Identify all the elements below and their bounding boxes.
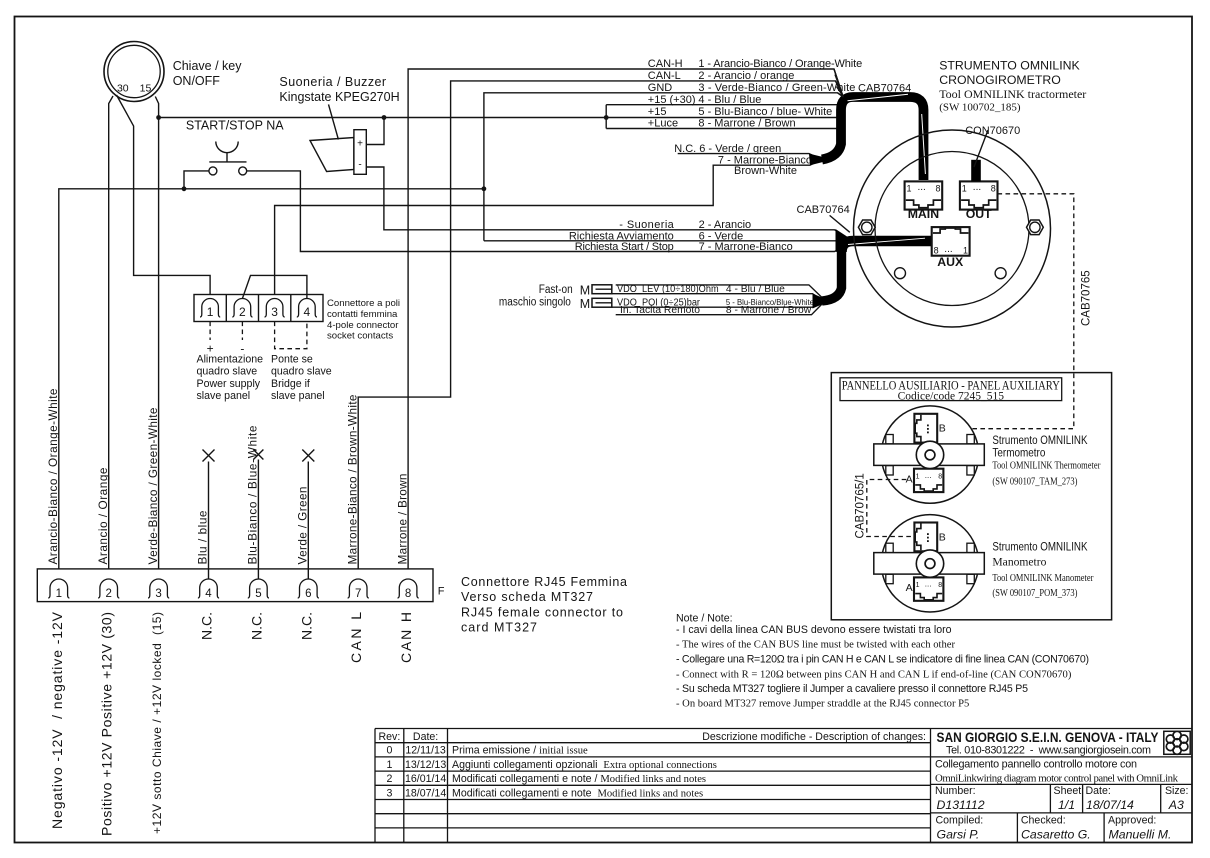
dashed stub 4-pole pin 2 bbox=[241, 322, 243, 341]
svg-text:- I cavi della linea CAN BUS d: - I cavi della linea CAN BUS devono esse… bbox=[676, 624, 952, 636]
svg-text:...: ... bbox=[973, 182, 981, 193]
svg-text:A3: A3 bbox=[1168, 798, 1184, 812]
svg-text:maschio singolo: maschio singolo bbox=[499, 297, 571, 309]
RJ45 pin 6 bbox=[298, 579, 319, 600]
wire buzzer - to Suoneria row bbox=[366, 167, 844, 236]
svg-text:M: M bbox=[580, 297, 590, 311]
svg-text:5: 5 bbox=[255, 588, 261, 600]
svg-text:Manometro: Manometro bbox=[992, 557, 1046, 569]
instrument OMNILINK thermometer bbox=[874, 406, 985, 503]
fast-on lug M2 bbox=[592, 298, 612, 307]
svg-text:Blu / blue: Blu / blue bbox=[196, 510, 210, 564]
wire N.C. RJ45 pin 4 stub bbox=[208, 462, 210, 580]
svg-text:Garsi P.: Garsi P. bbox=[937, 828, 980, 842]
connector AUX bbox=[932, 227, 970, 269]
4-pole pin 4 bbox=[297, 299, 317, 320]
svg-text:Descrizione modifiche - Descri: Descrizione modifiche - Description of c… bbox=[702, 731, 926, 743]
svg-text:VDO_LEV (10÷180)Ohm: VDO_LEV (10÷180)Ohm bbox=[617, 284, 719, 295]
svg-text:ON/OFF: ON/OFF bbox=[173, 74, 221, 88]
svg-text:1: 1 bbox=[56, 588, 62, 600]
net labels AUX rows bbox=[569, 219, 675, 253]
svg-text:Ponte se: Ponte se bbox=[271, 353, 313, 365]
svg-text:2 - Arancio / orange: 2 - Arancio / orange bbox=[698, 70, 794, 82]
svg-text:Verde-Bianco / Green-White: Verde-Bianco / Green-White bbox=[146, 407, 160, 564]
svg-text:SAN GIORGIO S.E.I.N. GENOVA -: SAN GIORGIO S.E.I.N. GENOVA - ITALY bbox=[937, 730, 1159, 745]
label STRUMENTO OMNILINK CRONOGIROMETRO bbox=[939, 59, 1086, 114]
svg-text:2 - Arancio: 2 - Arancio bbox=[699, 219, 752, 231]
RJ45 pin 4 bbox=[198, 579, 219, 600]
svg-text:16/01/14: 16/01/14 bbox=[405, 773, 446, 785]
4-pole pin 1 bbox=[200, 299, 220, 320]
4-pole pin 2 bbox=[232, 298, 252, 319]
svg-text:Connettore a poli: Connettore a poli bbox=[327, 298, 400, 309]
dashed cable CAB70765 from OUT to auxiliary panel bbox=[945, 194, 1074, 429]
dashed stub 4-pole pin 1 bbox=[209, 322, 211, 341]
svg-text:Negativo -12V / negative -12V: Negativo -12V / negative -12V bbox=[49, 611, 65, 829]
svg-text:Marrone-Bianco / Brown-White: Marrone-Bianco / Brown-White bbox=[345, 394, 359, 564]
svg-text:CAN L: CAN L bbox=[348, 612, 364, 663]
svg-text:3: 3 bbox=[271, 305, 278, 319]
wire button left contact to ground wire bbox=[184, 171, 209, 189]
svg-text:A: A bbox=[906, 473, 913, 485]
svg-text:Blu-Bianco / Blue-White: Blu-Bianco / Blue-White bbox=[246, 425, 260, 564]
terminator plug CON70670 bbox=[971, 160, 981, 182]
svg-text:...: ... bbox=[925, 580, 932, 589]
svg-text:Tel. 010-8301222 - www.sangi: Tel. 010-8301222 - www.sangiorgiosein.co… bbox=[946, 745, 1151, 757]
revision row 0 bbox=[386, 745, 588, 757]
buzzer horn bbox=[310, 138, 354, 172]
RJ45 pin 1 bbox=[48, 579, 69, 600]
svg-text:8: 8 bbox=[936, 184, 941, 194]
svg-text:Rev:: Rev: bbox=[379, 731, 401, 743]
svg-text:GND: GND bbox=[648, 82, 673, 94]
leader CAB70764 aux bbox=[830, 215, 850, 232]
svg-text:Sheet:: Sheet: bbox=[1054, 785, 1085, 797]
svg-text:...: ... bbox=[918, 182, 926, 193]
svg-text:1: 1 bbox=[207, 305, 214, 319]
svg-text:Collegamento pannello controll: Collegamento pannello controllo motore c… bbox=[935, 759, 1137, 771]
svg-text:CON70670: CON70670 bbox=[965, 125, 1020, 137]
svg-text:quadro slave: quadro slave bbox=[271, 366, 332, 378]
svg-text:3: 3 bbox=[155, 588, 161, 600]
wire N.C. RJ45 pin 5 stub bbox=[257, 460, 259, 580]
cable fan wedge rows 6-7 bbox=[809, 154, 823, 166]
svg-text:Checked:: Checked: bbox=[1021, 815, 1066, 827]
wire Richiesta Avviamento row 6-Verde bbox=[484, 240, 843, 242]
svg-text:Verde / Green: Verde / Green bbox=[296, 487, 310, 565]
fast-on row texts bbox=[617, 284, 814, 316]
svg-text:STRUMENTO OMNILINK: STRUMENTO OMNILINK bbox=[939, 59, 1080, 73]
svg-text:Suoneria / Buzzer: Suoneria / Buzzer bbox=[279, 75, 386, 89]
svg-text:30: 30 bbox=[117, 82, 129, 94]
svg-text:4-pole connector: 4-pole connector bbox=[327, 320, 399, 331]
svg-text:Strumento OMNILINK: Strumento OMNILINK bbox=[992, 539, 1087, 553]
svg-text:Kingstate KPEG270H: Kingstate KPEG270H bbox=[279, 90, 399, 104]
svg-text:B: B bbox=[939, 531, 946, 543]
RJ45 pin 3 bbox=[148, 579, 169, 600]
svg-text:3 - Verde-Bianco / Green-White: 3 - Verde-Bianco / Green-White bbox=[698, 82, 855, 94]
svg-text:CAN H: CAN H bbox=[398, 612, 414, 663]
svg-text:4 - Blu / Blue: 4 - Blu / Blue bbox=[698, 94, 761, 106]
svg-text:- Connect with R = 120Ω betwee: - Connect with R = 120Ω between pins CAN… bbox=[676, 669, 1072, 680]
svg-text:F: F bbox=[438, 586, 445, 598]
net labels instrument MAIN rows bbox=[648, 58, 696, 130]
svg-text:-: - bbox=[358, 160, 361, 171]
svg-text:Date:: Date: bbox=[413, 731, 438, 743]
svg-text:+Luce: +Luce bbox=[648, 118, 678, 130]
svg-text:- On board MT327 remove Jumper: - On board MT327 remove Jumper straddle … bbox=[676, 698, 969, 709]
svg-text:START/STOP NA: START/STOP NA bbox=[186, 119, 284, 133]
svg-text:18/07/14: 18/07/14 bbox=[405, 787, 446, 799]
svg-text:slave panel: slave panel bbox=[271, 390, 325, 402]
push button START/STOP NA bbox=[209, 142, 247, 175]
wire +15 feed from key to instrument +15 row bbox=[159, 117, 607, 119]
title block grid bbox=[375, 729, 1192, 843]
svg-text:A: A bbox=[906, 582, 913, 594]
svg-text:- The wires of the CAN BUS lin: - The wires of the CAN BUS line must be … bbox=[676, 640, 955, 651]
svg-text:N.C.: N.C. bbox=[199, 612, 215, 640]
wire 7 Marrone-Bianco from 4-pole pin 3 bbox=[275, 160, 821, 299]
svg-text:Fast-on: Fast-on bbox=[539, 284, 573, 296]
svg-text:socket contacts: socket contacts bbox=[327, 331, 393, 342]
svg-text:...: ... bbox=[925, 471, 932, 480]
svg-text:CAB70764: CAB70764 bbox=[797, 204, 850, 216]
svg-text:Richiesta Start / Stop: Richiesta Start / Stop bbox=[575, 241, 674, 253]
svg-text:8 - Marrone / Brow: 8 - Marrone / Brow bbox=[726, 305, 812, 316]
svg-text:N.C. 6 - Verde / green: N.C. 6 - Verde / green bbox=[674, 143, 781, 155]
svg-text:CAB70764: CAB70764 bbox=[858, 82, 911, 94]
fast-on lug M1 bbox=[592, 285, 612, 294]
svg-text:Number:: Number: bbox=[935, 785, 976, 797]
svg-text:CAN-H: CAN-H bbox=[648, 58, 683, 70]
svg-text:Arancio-Bianco / Orange-White: Arancio-Bianco / Orange-White bbox=[46, 388, 60, 564]
svg-text:Chiave / key: Chiave / key bbox=[173, 59, 243, 73]
svg-text:- Collegare una R=120Ω tra i p: - Collegare una R=120Ω tra i pin CAN H e… bbox=[676, 653, 1089, 665]
svg-text:+12V sotto Chiave / +12V locke: +12V sotto Chiave / +12V locked (15) bbox=[150, 612, 164, 834]
leader CON70670 bbox=[974, 130, 988, 167]
svg-text:1: 1 bbox=[916, 582, 920, 589]
RJ45 pin 2 bbox=[98, 579, 119, 600]
instrument cronogirometro bezel bbox=[854, 130, 1051, 327]
svg-text:+: + bbox=[357, 139, 363, 150]
svg-text:Note / Note:: Note / Note: bbox=[676, 613, 733, 625]
svg-text:1: 1 bbox=[907, 184, 912, 194]
panel title box bbox=[840, 378, 1062, 401]
cable fan rows 1-3 bbox=[834, 69, 844, 97]
svg-text:0: 0 bbox=[386, 745, 392, 757]
svg-text:Casaretto G.: Casaretto G. bbox=[1021, 828, 1091, 842]
pin labels AUX rows bbox=[699, 219, 793, 253]
svg-text:AUX: AUX bbox=[937, 255, 964, 269]
wire +15 (+30) row 4 bbox=[606, 104, 837, 106]
svg-text:2: 2 bbox=[386, 773, 392, 785]
mounting hole right bbox=[995, 268, 1006, 279]
labels manometer bbox=[992, 539, 1093, 599]
svg-text:M: M bbox=[580, 284, 590, 298]
svg-text:N.C.: N.C. bbox=[248, 612, 264, 640]
svg-text:CAN-L: CAN-L bbox=[648, 70, 681, 82]
svg-text:Power supply: Power supply bbox=[197, 378, 261, 390]
svg-text:...: ... bbox=[944, 244, 952, 255]
svg-text:MAIN: MAIN bbox=[908, 207, 940, 221]
svg-text:7 - Marrone-Bianco: 7 - Marrone-Bianco bbox=[699, 241, 793, 253]
svg-text:5 - Blu-Bianco / blue- White: 5 - Blu-Bianco / blue- White bbox=[698, 106, 832, 118]
svg-text:+15 (+30): +15 (+30) bbox=[648, 94, 696, 106]
svg-text:1: 1 bbox=[916, 474, 920, 481]
wire GND row 3 bbox=[484, 93, 844, 241]
svg-text:OUT: OUT bbox=[966, 207, 992, 221]
4-pole connector box bbox=[194, 295, 323, 322]
wire VDO_LEV row bbox=[612, 294, 820, 299]
label Connettore RJ45 Femmina bbox=[461, 575, 627, 635]
svg-text:Codice/code 7245_515: Codice/code 7245_515 bbox=[898, 390, 1005, 402]
wire +Luce row 8 bbox=[606, 128, 837, 130]
wire CAN-H row 1 from RJ45 pin 8 bbox=[408, 69, 842, 579]
wire +15 row 5 right stub bbox=[606, 117, 837, 119]
svg-text:Size:: Size: bbox=[1165, 785, 1189, 797]
connector OUT bbox=[960, 181, 998, 221]
wire VDO_POI row bbox=[612, 303, 820, 307]
cable seam highlight bbox=[848, 94, 926, 174]
svg-text:D131112: D131112 bbox=[937, 798, 985, 812]
cable CAB70764 bundle to MAIN connector bbox=[822, 97, 924, 180]
buzzer body Kingstate KPEG270H bbox=[354, 130, 366, 175]
svg-text:8: 8 bbox=[991, 184, 996, 194]
svg-text:- Suoneria: - Suoneria bbox=[619, 219, 674, 231]
svg-text:3: 3 bbox=[386, 787, 392, 799]
svg-text:7: 7 bbox=[355, 588, 361, 600]
svg-text:Modificati collegamenti e note: Modificati collegamenti e note / Modifie… bbox=[452, 773, 706, 785]
svg-text:Arancio / Orange: Arancio / Orange bbox=[96, 467, 110, 564]
svg-text:Marrone / Brown: Marrone / Brown bbox=[395, 474, 409, 565]
labels thermometer bbox=[992, 433, 1100, 487]
svg-text:Tool OMNILINK Manometer: Tool OMNILINK Manometer bbox=[992, 572, 1093, 584]
svg-text:Approved:: Approved: bbox=[1108, 815, 1156, 827]
wire N.C. 6 - Verde row bbox=[678, 154, 821, 159]
wire button right contact to Richiesta Start/Stop row bbox=[247, 171, 844, 252]
svg-text:4: 4 bbox=[304, 305, 311, 319]
svg-text:Manuelli M.: Manuelli M. bbox=[1109, 828, 1172, 842]
label Alimentazione quadro slave bbox=[197, 353, 264, 402]
svg-text:CAB70765: CAB70765 bbox=[1081, 270, 1093, 326]
company logo bbox=[1164, 731, 1190, 754]
RJ45 female connector F box bbox=[37, 569, 433, 602]
RJ45 pin 7 bbox=[348, 579, 369, 600]
svg-text:(SW 090107_POM_373): (SW 090107_POM_373) bbox=[992, 588, 1077, 599]
svg-text:1: 1 bbox=[386, 759, 392, 771]
revision row 2 bbox=[386, 773, 706, 785]
svg-text:Brown-White: Brown-White bbox=[734, 165, 797, 177]
svg-text:Date:: Date: bbox=[1086, 785, 1111, 797]
svg-text:Positivo +12V Positive +12V (3: Positivo +12V Positive +12V (30) bbox=[99, 612, 115, 836]
svg-text:15: 15 bbox=[140, 82, 152, 94]
svg-text:Bridge if: Bridge if bbox=[271, 378, 310, 390]
junction key 15 bbox=[156, 115, 161, 120]
svg-text:Verso scheda MT327: Verso scheda MT327 bbox=[461, 590, 593, 604]
svg-text:Connettore RJ45 Femmina: Connettore RJ45 Femmina bbox=[461, 575, 627, 589]
svg-text:1: 1 bbox=[962, 184, 967, 194]
fast-on bundle outline top bbox=[616, 285, 823, 298]
svg-text:+15: +15 bbox=[648, 106, 667, 118]
revision row 3 bbox=[386, 787, 703, 799]
instrument OMNILINK manometer bbox=[874, 515, 985, 612]
svg-text:In. Tacita Remoto: In. Tacita Remoto bbox=[620, 305, 701, 316]
svg-text:1/1: 1/1 bbox=[1058, 798, 1075, 812]
svg-text:quadro slave: quadro slave bbox=[197, 366, 258, 378]
svg-text:Aggiunti collegamenti opzional: Aggiunti collegamenti opzionali Extra op… bbox=[452, 759, 717, 771]
dashed bridge 4-pole pins 3-4 bbox=[275, 322, 307, 349]
svg-text:8: 8 bbox=[938, 474, 942, 481]
junction button ground bbox=[182, 186, 187, 191]
svg-text:OmniLinkwiring diagram motor c: OmniLinkwiring diagram motor control pan… bbox=[935, 773, 1179, 785]
svg-text:slave panel: slave panel bbox=[197, 390, 251, 402]
svg-text:CRONOGIROMETRO: CRONOGIROMETRO bbox=[939, 73, 1061, 87]
svg-text:Prima emissione / initial issu: Prima emissione / initial issue bbox=[452, 745, 588, 757]
cable fan wedge fast-on bbox=[813, 294, 825, 309]
svg-text:1 - Arancio-Bianco / Orange-Wh: 1 - Arancio-Bianco / Orange-White bbox=[698, 58, 862, 70]
ground wire from RJ45 pin 1 bbox=[59, 189, 484, 579]
svg-text:2: 2 bbox=[239, 305, 246, 319]
svg-text:contatti femmina: contatti femmina bbox=[327, 309, 398, 320]
svg-text:RJ45 female connector to: RJ45 female connector to bbox=[461, 605, 623, 619]
mounting nut left bbox=[858, 220, 875, 235]
cable seam highlight AUX bbox=[848, 238, 925, 244]
svg-text:4: 4 bbox=[205, 588, 212, 600]
svg-text:CAB70765/1: CAB70765/1 bbox=[855, 473, 867, 538]
svg-text:Tool OMNILINK Thermometer: Tool OMNILINK Thermometer bbox=[992, 459, 1100, 471]
label Ponte se quadro slave bbox=[271, 353, 332, 402]
wire 4-pole pin 2 to pin 4 bbox=[242, 275, 307, 298]
svg-text:card MT327: card MT327 bbox=[461, 621, 537, 635]
revision row 1 bbox=[386, 759, 716, 771]
4-pole pin 3 bbox=[265, 299, 285, 320]
pin labels instrument MAIN rows bbox=[698, 58, 862, 130]
key switch S1 Chiave/key ON/OFF bbox=[104, 42, 164, 102]
auxiliary panel box bbox=[831, 373, 1111, 620]
svg-text:Compiled:: Compiled: bbox=[936, 815, 984, 827]
svg-text:(SW 100702_185): (SW 100702_185) bbox=[939, 102, 1021, 114]
svg-text:N.C.: N.C. bbox=[298, 612, 314, 640]
junction buzzer plus bbox=[382, 115, 387, 120]
wire buzzer + to +15 wire bbox=[366, 118, 384, 145]
svg-text:1: 1 bbox=[963, 245, 968, 255]
cable CAB70765 fast-on bundle bbox=[822, 250, 842, 301]
svg-text:Tool OMNILINK tractormeter: Tool OMNILINK tractormeter bbox=[939, 87, 1086, 101]
svg-text:13/12/13: 13/12/13 bbox=[405, 759, 446, 771]
wire key terminal 15 down to RJ45 pin 3 bbox=[155, 97, 158, 580]
leader buzzer label bbox=[329, 104, 339, 139]
wire key wiper to 4-pole connector pin 1 bbox=[117, 95, 211, 299]
mounting hole left bbox=[895, 268, 906, 279]
svg-text:Strumento OMNILINK: Strumento OMNILINK bbox=[992, 433, 1087, 447]
svg-text:8: 8 bbox=[934, 245, 939, 255]
cable CAB70764 bundle to AUX connector bbox=[842, 241, 932, 252]
revision table header bbox=[379, 731, 926, 743]
svg-text:Alimentazione: Alimentazione bbox=[197, 353, 264, 365]
wire N.C. RJ45 pin 6 stub bbox=[307, 462, 309, 580]
RJ45 pin 8 bbox=[398, 579, 419, 600]
wire key terminal 30 down to RJ45 pin 2 bbox=[109, 96, 113, 579]
label 4-pole connector bbox=[327, 298, 400, 341]
junction +15 bracket bbox=[604, 115, 609, 120]
wire CAN-L row 2 from RJ45 pin 7 bbox=[358, 81, 843, 579]
bracket joining +15 rows bbox=[605, 105, 607, 129]
svg-text:8: 8 bbox=[938, 582, 942, 589]
svg-text:(SW 090107_TAM_273): (SW 090107_TAM_273) bbox=[992, 476, 1077, 487]
svg-text:Modificati collegamenti e note: Modificati collegamenti e note Modified … bbox=[452, 787, 703, 799]
svg-text:18/07/14: 18/07/14 bbox=[1086, 798, 1134, 812]
svg-text:2: 2 bbox=[105, 588, 111, 600]
svg-text:Termometro: Termometro bbox=[992, 447, 1045, 459]
svg-text:8 - Marrone / Brown: 8 - Marrone / Brown bbox=[698, 118, 795, 130]
notes block bbox=[676, 613, 1089, 710]
cable fan wedge AUX rows bbox=[836, 229, 848, 252]
svg-text:B: B bbox=[939, 423, 946, 435]
wire In.Tacita row / bundle outline bottom bbox=[616, 304, 823, 315]
mounting nut right bbox=[1027, 220, 1044, 235]
svg-text:4 - Blu / Blue: 4 - Blu / Blue bbox=[726, 284, 785, 295]
RJ45 pin 5 bbox=[248, 579, 269, 600]
svg-text:6: 6 bbox=[305, 588, 311, 600]
connector MAIN bbox=[905, 181, 943, 221]
svg-text:8: 8 bbox=[405, 588, 411, 600]
svg-text:- Su scheda MT327 togliere il: - Su scheda MT327 togliere il Jumper a c… bbox=[676, 683, 1028, 695]
junction ground to GND riser bbox=[482, 186, 487, 191]
dashed cable CAB70765/1 thermometer A to manometer B bbox=[867, 480, 914, 537]
svg-text:12/11/13: 12/11/13 bbox=[405, 745, 446, 757]
